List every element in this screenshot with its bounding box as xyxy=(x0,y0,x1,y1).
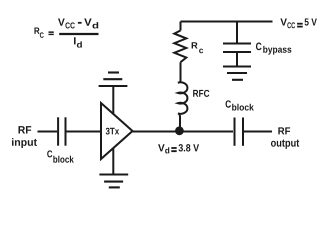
label Cbypass xyxy=(256,43,291,55)
ground (below Cbypass) xyxy=(223,67,251,80)
label RFC xyxy=(193,90,209,97)
wire: RFC to node xyxy=(179,116,181,132)
label Cblock (output) xyxy=(226,100,254,110)
label Vcc = 5 V xyxy=(280,18,316,28)
op-amp U1 triangle 3Tx xyxy=(101,103,133,159)
wire: stub from rail to resistor xyxy=(180,22,182,31)
wire: amp bottom stem xyxy=(112,148,114,174)
label Vd = 3.8 V xyxy=(158,144,199,153)
wire: upper ground stem to amp xyxy=(112,86,114,115)
label RF output xyxy=(271,127,299,148)
wire: Cblock to amplifier xyxy=(67,131,101,133)
ground (inverted, above amplifier) xyxy=(99,73,128,87)
inductor RFC coil xyxy=(178,62,188,117)
capacitor Cblock (input) xyxy=(57,117,59,145)
wire: Cbypass stub from rail xyxy=(236,22,238,44)
wire Vcc rail xyxy=(181,21,273,23)
node Vd junction dot xyxy=(175,126,184,135)
wire: amp output to Cblock out (through node) xyxy=(133,131,234,133)
ground (below amplifier) xyxy=(99,175,128,188)
fraction bar xyxy=(59,33,98,35)
label RF input xyxy=(12,126,37,148)
capacitor Cbypass xyxy=(223,43,251,45)
label Cblock (input) xyxy=(47,150,74,162)
label Rc xyxy=(192,42,204,53)
formula Rc = (Vcc - Vd)/Id xyxy=(34,19,98,48)
resistor Rc zigzag xyxy=(174,31,186,63)
wire: Cblock out to RF output xyxy=(244,131,272,133)
wire: RF input to Cblock xyxy=(38,131,58,133)
capacitor Cblock (output) xyxy=(234,118,236,146)
